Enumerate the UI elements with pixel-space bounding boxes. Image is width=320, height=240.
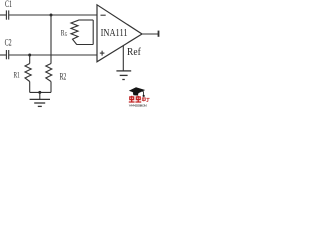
svg-text:C1: C1	[5, 0, 12, 9]
resistor R2	[46, 64, 52, 93]
svg-text:G: G	[65, 32, 68, 38]
svg-text:Ref: Ref	[127, 47, 141, 59]
label RG	[61, 27, 68, 38]
output terminal tick	[158, 31, 160, 37]
ground (Ref)	[116, 71, 131, 80]
pin - (inverting)	[101, 14, 106, 16]
svg-text:C2: C2	[5, 37, 12, 48]
wire Ref pin	[122, 46, 124, 71]
resistor R1	[25, 55, 31, 92]
svg-text:R2: R2	[60, 71, 67, 82]
svg-text:WWW.CECB2B.COM: WWW.CECB2B.COM	[129, 103, 147, 107]
svg-text:R1: R1	[14, 70, 20, 80]
wire C1 to inverting input	[9, 14, 97, 16]
capacitor C1	[0, 10, 9, 19]
node junction top rail	[50, 14, 53, 17]
wire bottom rail R1-R2	[30, 91, 51, 93]
wire output	[142, 33, 159, 35]
node junction ground	[38, 91, 41, 94]
wire C2 to non-inverting input	[9, 54, 97, 56]
ground (left)	[30, 92, 50, 106]
op-amp U1 INA111	[97, 5, 142, 62]
svg-text:R: R	[61, 27, 65, 38]
svg-text:INA111: INA111	[101, 28, 128, 39]
capacitor C2	[0, 50, 9, 59]
watermark logo (graduation cap + red text)	[129, 87, 150, 107]
node junction R1 top	[28, 54, 31, 57]
pin + (non-inverting)	[100, 52, 105, 54]
wire junction down to R2	[50, 15, 52, 64]
wire RG pins connector	[92, 20, 94, 45]
resistor RG	[71, 20, 93, 45]
